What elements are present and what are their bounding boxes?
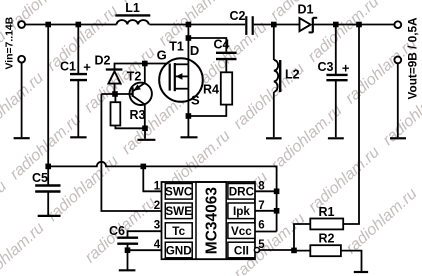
wire D1 to output bbox=[314, 24, 395, 26]
svg-text:4: 4 bbox=[154, 239, 161, 251]
wire Vin- down bbox=[21, 63, 23, 138]
diode D2 bbox=[95, 54, 123, 95]
wire L1 to C2 bbox=[149, 24, 245, 26]
wire to ground bbox=[144, 128, 146, 139]
ground C1 bbox=[70, 136, 86, 138]
wire top rail left bbox=[25, 24, 117, 26]
node rail pin1 junction bbox=[141, 164, 147, 170]
wire pin8 DRC bbox=[255, 190, 277, 192]
wire rail with hop bbox=[48, 162, 276, 232]
svg-text:D1: D1 bbox=[298, 3, 314, 17]
svg-text:+: + bbox=[83, 60, 91, 75]
svg-text:radiohlam.ru: radiohlam.ru bbox=[305, 144, 383, 216]
capacitor C3 bbox=[318, 25, 350, 138]
svg-text:radiohlam.ru: radiohlam.ru bbox=[44, 153, 122, 225]
ground L2 bbox=[266, 137, 282, 139]
pin 8 DRC box bbox=[228, 180, 265, 199]
wire source down bbox=[187, 89, 189, 138]
wire R1 right to Vout bbox=[343, 25, 359, 225]
svg-text:GND: GND bbox=[166, 244, 192, 257]
diode D1 bbox=[298, 3, 318, 33]
wire T2 collector down bbox=[144, 104, 146, 128]
node pin8 junction bbox=[274, 189, 280, 195]
wire pin5 CII bbox=[259, 249, 294, 251]
svg-text:S: S bbox=[191, 93, 200, 108]
capacitor C1 bbox=[60, 25, 91, 138]
svg-text:T2: T2 bbox=[127, 70, 142, 84]
svg-text:R1: R1 bbox=[319, 205, 335, 219]
node pin4 junction bbox=[125, 247, 131, 253]
capacitor C5 bbox=[32, 166, 60, 215]
inductor L2 bbox=[274, 60, 300, 92]
svg-text:radiohlam.ru: radiohlam.ru bbox=[6, 0, 84, 33]
svg-text:Tc: Tc bbox=[172, 225, 185, 238]
node R1 junction bbox=[356, 22, 362, 28]
ground C3 bbox=[328, 137, 344, 139]
wire C4 to R4 bbox=[225, 60, 227, 72]
node C1 junction bbox=[76, 22, 82, 28]
svg-text:G: G bbox=[157, 48, 167, 63]
svg-text:Vin=7..14B: Vin=7..14B bbox=[5, 16, 16, 69]
pin5 bubble bbox=[254, 248, 259, 253]
node D2 anode junction bbox=[112, 91, 118, 97]
wire Vin+ down to rail bbox=[47, 25, 49, 167]
node C3 junction bbox=[333, 22, 339, 28]
output terminal top bbox=[394, 21, 401, 28]
wire L2 to ground bbox=[273, 92, 275, 137]
wire drain up bbox=[187, 25, 189, 65]
ground C6 bbox=[119, 269, 136, 271]
wire pin3 Tc bbox=[128, 231, 166, 237]
resistor R3 bbox=[111, 94, 146, 128]
svg-text:radiohlam.ru: radiohlam.ru bbox=[305, 0, 383, 66]
wire base line bbox=[101, 93, 132, 95]
svg-text:Vcc: Vcc bbox=[231, 225, 252, 238]
svg-text:2: 2 bbox=[154, 200, 160, 212]
svg-text:C4: C4 bbox=[214, 38, 230, 52]
svg-text:C3: C3 bbox=[318, 60, 334, 74]
ground T2 bbox=[137, 139, 155, 141]
wire C6 to ground bbox=[127, 244, 129, 270]
pin 7 Ipk box bbox=[228, 200, 265, 219]
input terminal + bbox=[18, 21, 25, 28]
resistor R2 bbox=[310, 232, 341, 257]
svg-text:L1: L1 bbox=[125, 1, 140, 15]
svg-text:3: 3 bbox=[154, 220, 160, 232]
pin 6 Vcc box bbox=[228, 220, 265, 239]
svg-text:MC34063: MC34063 bbox=[204, 187, 221, 255]
svg-text:R3: R3 bbox=[130, 108, 146, 122]
svg-text:SWC: SWC bbox=[165, 186, 193, 199]
svg-text:C1: C1 bbox=[60, 60, 76, 74]
svg-text:radiohlam.ru: radiohlam.ru bbox=[0, 178, 10, 250]
output terminal bottom bbox=[394, 57, 401, 64]
svg-text:radiohlam.ru: radiohlam.ru bbox=[343, 185, 421, 257]
wire drain to C4 bbox=[188, 38, 226, 52]
svg-text:6: 6 bbox=[258, 220, 264, 232]
svg-text:DRC: DRC bbox=[229, 186, 255, 199]
MC34063 center box bbox=[196, 182, 226, 259]
wire R2 right to ground bbox=[341, 251, 362, 271]
input terminal - bbox=[18, 56, 25, 63]
wire R2 left bbox=[294, 250, 310, 252]
node R3-T2 junction bbox=[142, 126, 148, 132]
pin 3 Tc box bbox=[154, 220, 192, 239]
pin 1 SWC box bbox=[154, 180, 193, 199]
capacitor C2 bbox=[230, 9, 253, 35]
node Vin junction bbox=[45, 22, 51, 28]
svg-text:T1: T1 bbox=[169, 40, 184, 54]
op-amp U1 MC34063 outer box bbox=[162, 182, 255, 259]
svg-text:radiohlam.ru: radiohlam.ru bbox=[0, 219, 48, 276]
node rail C5 junction bbox=[45, 164, 51, 170]
svg-text:Ipk: Ipk bbox=[233, 205, 250, 218]
svg-text:1: 1 bbox=[154, 180, 161, 192]
ground T1 source bbox=[181, 136, 198, 138]
svg-text:R2: R2 bbox=[319, 232, 335, 246]
wire D2 top to gate line bbox=[115, 64, 170, 70]
svg-text:D: D bbox=[190, 43, 199, 58]
wire R4 to source bbox=[188, 105, 226, 116]
node source R4 junction bbox=[186, 113, 192, 119]
wire C2 to D1 bbox=[254, 24, 300, 26]
node T1 drain junction bbox=[186, 22, 192, 28]
ground input bbox=[14, 137, 30, 139]
wire pin6 Vcc bbox=[255, 231, 277, 233]
pin 5 CII box bbox=[228, 239, 265, 258]
svg-text:C5: C5 bbox=[32, 171, 48, 185]
resistor R4 bbox=[203, 72, 232, 104]
node C2-L2-D1 junction bbox=[271, 22, 277, 28]
wire junction to L2 bbox=[273, 25, 275, 61]
svg-text:L2: L2 bbox=[285, 68, 300, 82]
node gate junction bbox=[142, 61, 148, 67]
resistor R1 bbox=[310, 205, 343, 229]
svg-text:CII: CII bbox=[234, 244, 249, 257]
svg-text:Vout=9B / 0,5A: Vout=9B / 0,5A bbox=[406, 17, 420, 100]
svg-text:R4: R4 bbox=[203, 83, 219, 97]
wire R1 left bbox=[294, 224, 310, 250]
node feedback junction bbox=[291, 248, 297, 254]
wire pin4 GND bbox=[128, 249, 166, 251]
pin 4 GND box bbox=[154, 239, 192, 258]
svg-text:C6: C6 bbox=[109, 224, 125, 238]
svg-text:C2: C2 bbox=[230, 9, 246, 23]
wire base to pin2 SWE bbox=[101, 94, 165, 211]
capacitor C4 bbox=[214, 38, 237, 60]
wire pin7 Ipk bbox=[255, 210, 277, 212]
transistor T2 bbox=[127, 70, 152, 106]
node pin7 junction bbox=[274, 208, 280, 214]
svg-text:+: + bbox=[342, 61, 350, 76]
capacitor C6 bbox=[109, 224, 138, 244]
ground C5 bbox=[38, 215, 61, 217]
wire output - down bbox=[397, 63, 399, 137]
pin 2 SWE box bbox=[154, 200, 192, 219]
node drain C4 branch bbox=[186, 35, 192, 41]
svg-text:SWE: SWE bbox=[165, 205, 192, 218]
ground R2 bbox=[354, 271, 368, 273]
transistor T1 bbox=[157, 40, 203, 108]
wire T2 emitter up bbox=[144, 64, 146, 84]
ground output bbox=[390, 137, 406, 139]
svg-text:radiohlam.ru: radiohlam.ru bbox=[0, 69, 47, 141]
wire pin1 SWC bbox=[143, 166, 165, 191]
svg-text:D2: D2 bbox=[95, 54, 111, 68]
inductor L1 bbox=[115, 1, 150, 25]
